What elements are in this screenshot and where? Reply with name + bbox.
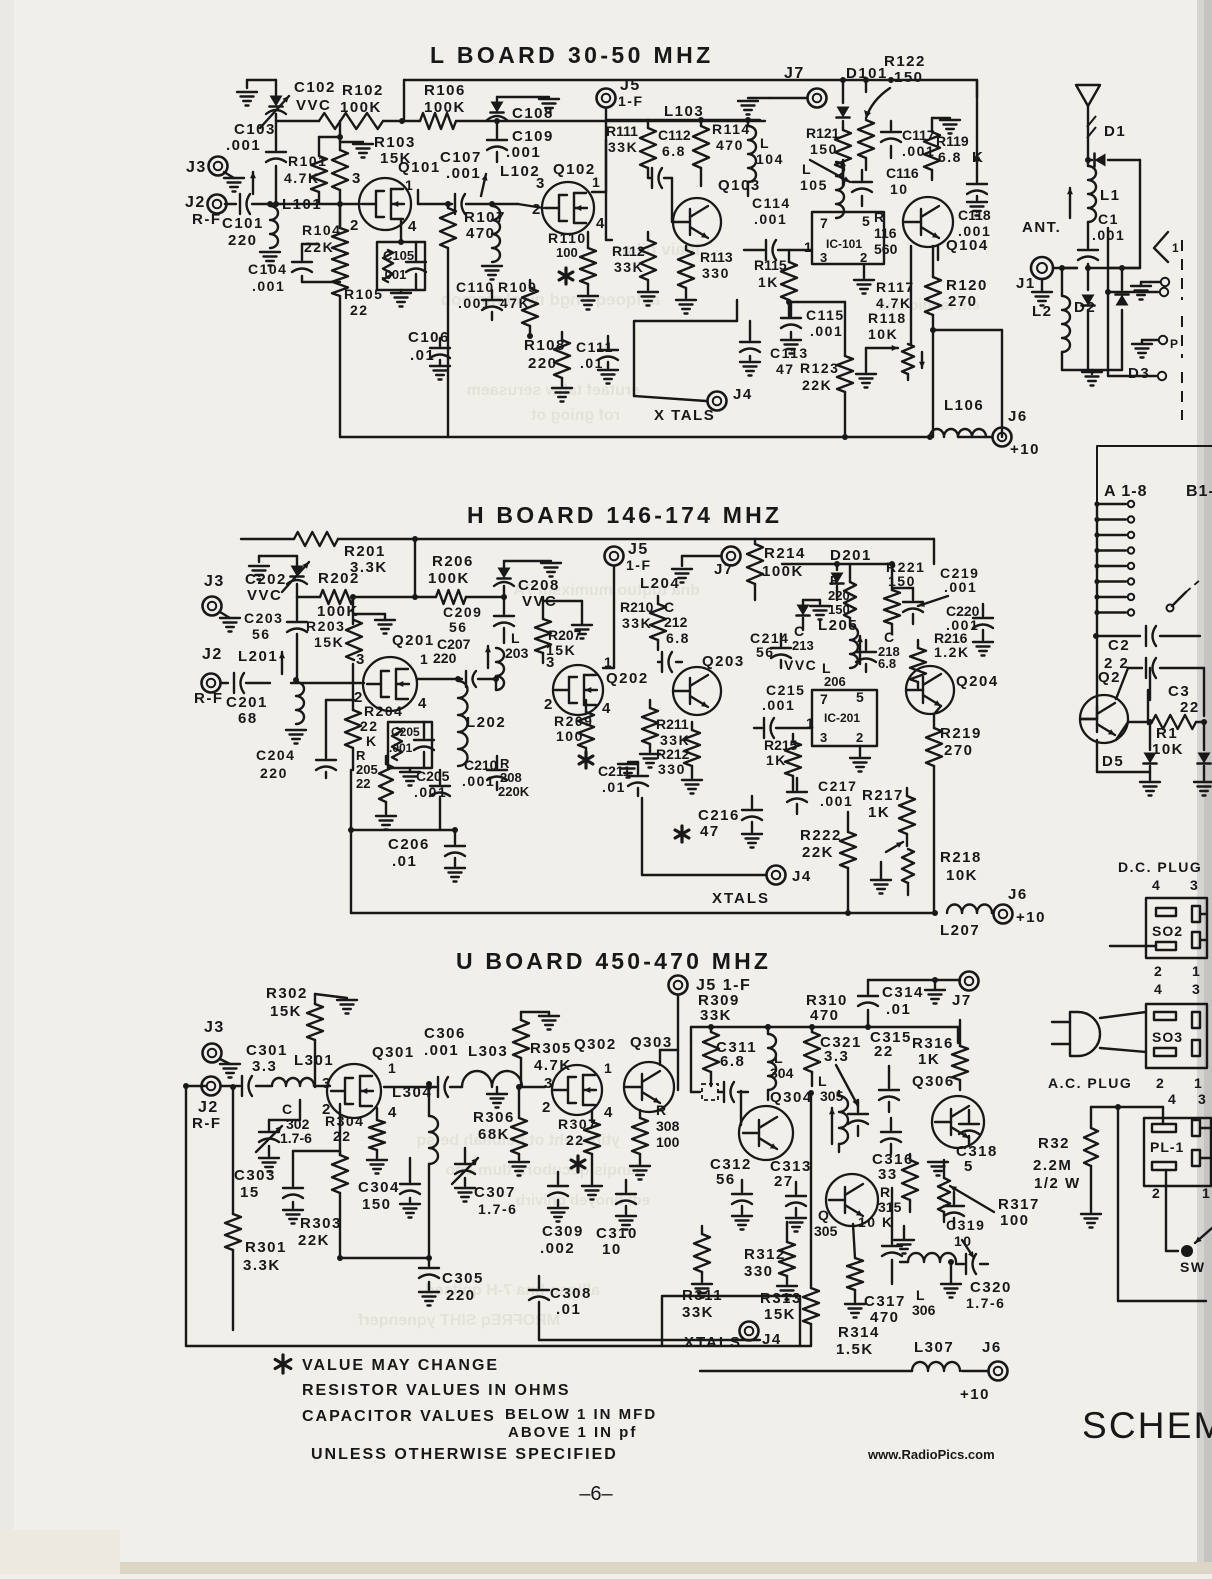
svg-text:B1-: B1-: [1186, 483, 1212, 500]
svg-text:Q303: Q303: [630, 1034, 673, 1051]
resistor R105: [332, 262, 383, 437]
svg-text:1K: 1K: [766, 752, 787, 768]
wire H r202 drop: [412, 539, 418, 600]
svg-text:UNLESS OTHERWISE SPECIFIED: UNLESS OTHERWISE SPECIFIED: [311, 1446, 618, 1463]
wire PL1 left: [1118, 1107, 1206, 1301]
svg-text:470: 470: [810, 1007, 840, 1024]
wire H bus2: [297, 596, 504, 598]
svg-text:C206: C206: [388, 836, 430, 853]
resistor R222: [800, 812, 856, 913]
jack J7 H: [672, 547, 741, 583]
wire L xtal box: [634, 300, 737, 396]
svg-text:R103: R103: [374, 134, 416, 151]
svg-text:IC-201: IC-201: [824, 711, 860, 725]
svg-text:22: 22: [350, 302, 369, 318]
svg-text:C204: C204: [256, 747, 295, 763]
svg-text:22: 22: [333, 1128, 352, 1144]
inductor L304a: [392, 1081, 438, 1258]
capacitor C116: [810, 160, 919, 206]
svg-text:.001: .001: [820, 793, 853, 809]
svg-text:R110: R110: [548, 230, 587, 246]
IC-101 box: [804, 212, 884, 294]
note below: [505, 1406, 657, 1423]
svg-text:213: 213: [792, 638, 814, 653]
inductor L303: [450, 1043, 545, 1108]
svg-text:47: 47: [700, 823, 720, 840]
resistor R107: [440, 204, 506, 437]
svg-text:1: 1: [804, 239, 813, 255]
svg-text:J2: J2: [198, 1099, 219, 1116]
svg-text:1.7-6: 1.7-6: [478, 1201, 517, 1217]
svg-text:R117: R117: [876, 279, 915, 295]
resistor R109: [498, 279, 538, 339]
svg-text:1: 1: [1172, 241, 1180, 255]
right page edge band: [1197, 0, 1212, 1574]
svg-text:C318: C318: [956, 1143, 998, 1160]
svg-text:Q202: Q202: [606, 670, 649, 687]
wire Q201 gate: [291, 682, 364, 684]
capacitor C219: [892, 565, 979, 624]
svg-text:4: 4: [604, 1104, 614, 1121]
resistor R216: [910, 630, 970, 688]
svg-text:Q: Q: [818, 1207, 830, 1223]
svg-text:33K: 33K: [614, 259, 644, 275]
svg-text:10: 10: [602, 1241, 622, 1258]
wire A col top: [1097, 446, 1212, 504]
capacitor C214: [750, 630, 791, 668]
jack J6 L: [958, 408, 1040, 458]
svg-text:C116: C116: [886, 165, 919, 181]
capacitor C109: [487, 121, 554, 162]
svg-text:2: 2: [532, 201, 542, 218]
svg-text:SO3: SO3: [1152, 1029, 1183, 1045]
svg-text:C113: C113: [770, 345, 809, 361]
svg-text:C307: C307: [474, 1184, 516, 1201]
svg-text:C: C: [282, 1101, 294, 1117]
capacitor C105: [377, 242, 426, 307]
resistor R106: [399, 82, 466, 129]
note unless: [311, 1446, 618, 1463]
L board title: [430, 42, 714, 68]
svg-text:PL-1: PL-1: [1150, 1139, 1184, 1155]
svg-text:3: 3: [356, 651, 366, 668]
ground H mid: [354, 614, 395, 634]
svg-text:J7: J7: [714, 561, 734, 578]
svg-text:L102: L102: [500, 163, 540, 180]
resistor R312: [744, 1222, 797, 1300]
svg-text:3: 3: [1198, 1091, 1207, 1107]
note above: [508, 1424, 637, 1441]
wire top border L: [404, 80, 977, 97]
resistor R115: [754, 250, 845, 316]
svg-text:R218: R218: [940, 849, 982, 866]
svg-text:C110: C110: [456, 279, 495, 295]
ground C202: [249, 556, 297, 580]
SO3 slot2: [1154, 1048, 1176, 1056]
svg-text:3: 3: [544, 1075, 554, 1092]
svg-text:2.2M: 2.2M: [1033, 1157, 1072, 1174]
svg-text:R: R: [500, 756, 510, 771]
wire R101 top: [319, 121, 340, 137]
inductor L102: [481, 163, 540, 280]
svg-text:R120: R120: [946, 277, 988, 294]
svg-text:L: L: [760, 135, 770, 151]
wire Q2 base: [1081, 636, 1097, 719]
svg-text:.01: .01: [410, 347, 435, 364]
svg-text:R123: R123: [800, 360, 839, 376]
svg-text:L: L: [818, 1073, 828, 1089]
capacitor C304: [358, 1158, 420, 1218]
wire H q204 em: [934, 706, 941, 913]
right edge arrow1: [1154, 232, 1180, 262]
resistor R119: [924, 118, 969, 180]
svg-text:1-F: 1-F: [618, 93, 644, 109]
resistor R215: [764, 734, 801, 790]
jack J2 L: [185, 194, 227, 228]
SO3 slot3: [1192, 1012, 1200, 1028]
svg-text:Q301: Q301: [372, 1044, 415, 1061]
transistor Q303: [624, 1034, 678, 1112]
inductor L105: [800, 160, 846, 218]
svg-text:L207: L207: [940, 922, 980, 939]
svg-text:XTALS: XTALS: [684, 1334, 742, 1351]
svg-text:C109: C109: [512, 128, 554, 145]
label DC PLUG: [1118, 859, 1202, 875]
transistor Q201: [354, 632, 435, 712]
transistor Q204: [906, 666, 999, 714]
svg-text:4: 4: [1168, 1091, 1177, 1107]
resistor R104: [302, 204, 348, 262]
right edge contact g1: [1131, 278, 1169, 300]
svg-text:C201: C201: [226, 694, 268, 711]
svg-text:1: 1: [604, 1060, 613, 1076]
capacitor C314: [858, 980, 924, 1027]
svg-text:.001: .001: [226, 137, 261, 154]
svg-text:Q103: Q103: [718, 177, 761, 194]
svg-text:56: 56: [716, 1171, 736, 1188]
svg-text:D.C. PLUG: D.C. PLUG: [1118, 859, 1202, 875]
svg-text:308: 308: [656, 1118, 680, 1134]
svg-text:.01: .01: [392, 853, 417, 870]
inductor L305: [818, 1073, 848, 1152]
capacitor C111: [576, 336, 618, 384]
svg-text:203: 203: [505, 645, 529, 661]
capacitor C103: [226, 121, 286, 207]
svg-text:10K: 10K: [868, 326, 898, 342]
svg-text:J3: J3: [204, 573, 225, 590]
capacitor C212: [658, 599, 690, 672]
svg-text:.01: .01: [556, 1301, 581, 1318]
resistor R315: [858, 1154, 918, 1254]
jack J3 L: [186, 157, 244, 192]
svg-text:C115: C115: [806, 307, 845, 323]
wire U left border: [183, 1083, 811, 1346]
capacitor C101: [222, 194, 270, 249]
svg-text:4: 4: [596, 215, 606, 232]
inductor L206: [822, 660, 846, 689]
svg-text:100K: 100K: [428, 570, 470, 587]
svg-text:6.8: 6.8: [878, 656, 896, 671]
svg-text:330: 330: [658, 761, 686, 777]
svg-text:XTALS: XTALS: [712, 890, 770, 907]
transistor Q2: [1080, 669, 1128, 743]
svg-text:R-F: R-F: [192, 1115, 222, 1132]
svg-text:L: L: [511, 630, 521, 646]
resistor R116 560: [874, 209, 898, 257]
note capacitor values: [302, 1408, 496, 1425]
svg-text:7: 7: [820, 215, 829, 231]
wire L q104 em: [937, 246, 939, 260]
svg-text:R303: R303: [300, 1215, 342, 1232]
capacitor C110: [456, 279, 502, 320]
svg-text:1-F: 1-F: [626, 557, 652, 573]
svg-text:R-F: R-F: [192, 211, 222, 228]
resistor R208: [498, 756, 530, 799]
svg-text:C304: C304: [358, 1179, 400, 1196]
svg-text:L303: L303: [468, 1043, 508, 1060]
SO3 box: [1146, 1004, 1207, 1068]
capacitor C317: [864, 1188, 906, 1326]
capacitor C316: [872, 1118, 914, 1183]
right edge dash line: [1181, 240, 1183, 420]
capacitor C305: [419, 1258, 484, 1306]
svg-text:.001: .001: [424, 1042, 459, 1059]
svg-text:22: 22: [874, 1043, 894, 1060]
IC-201 box: [806, 689, 877, 772]
svg-text:VVC: VVC: [784, 657, 817, 673]
SO3 label: [1152, 1029, 1183, 1045]
svg-text:22K: 22K: [802, 377, 832, 393]
resistor R219: [926, 714, 982, 800]
resistor R209: [554, 700, 594, 768]
capacitor C303: [234, 1151, 340, 1224]
svg-text:330: 330: [744, 1263, 774, 1280]
H board title: [467, 502, 782, 528]
resistor R313: [760, 1090, 819, 1346]
wire H bottom border: [351, 910, 938, 916]
svg-text:1: 1: [1202, 1185, 1211, 1201]
svg-text:100: 100: [556, 245, 578, 260]
svg-text:4: 4: [418, 695, 428, 712]
right edge contact b: [1108, 372, 1166, 380]
PL1 pins 4 3: [1168, 1091, 1207, 1107]
svg-text:C2: C2: [1108, 637, 1130, 654]
svg-text:4.7K: 4.7K: [876, 295, 912, 311]
svg-text:–6–: –6–: [579, 1483, 613, 1505]
wire U mid bus: [337, 1255, 432, 1261]
transistor Q306: [912, 1073, 984, 1148]
svg-text:22: 22: [1180, 699, 1200, 716]
svg-text:3: 3: [820, 730, 829, 745]
capacitor C312: [710, 1156, 752, 1230]
resistor R203: [306, 594, 362, 682]
svg-text:J7: J7: [784, 65, 805, 82]
resistor R204: [345, 682, 403, 770]
svg-text:C203: C203: [244, 610, 283, 626]
svg-text:3: 3: [352, 170, 362, 187]
svg-text:.001: .001: [252, 278, 285, 294]
svg-text:R32: R32: [1038, 1135, 1070, 1152]
capacitor C313: [770, 1158, 812, 1232]
svg-text:SCHEM: SCHEM: [1082, 1405, 1212, 1446]
node K: [972, 149, 984, 166]
wire Q101-4: [398, 219, 404, 245]
svg-text:C107: C107: [440, 149, 482, 166]
capacitor C218: [856, 629, 900, 672]
svg-text:R313: R313: [760, 1290, 802, 1307]
SO3 pins 4 3: [1154, 981, 1201, 997]
AC wires: [1100, 1012, 1146, 1052]
svg-text:3: 3: [1190, 877, 1199, 893]
svg-text:L: L: [802, 161, 812, 177]
capacitor C106: [408, 329, 450, 380]
U board title: [456, 948, 771, 974]
svg-text:R214: R214: [764, 545, 806, 562]
svg-text:100: 100: [556, 728, 584, 744]
wire H xtal box: [642, 798, 766, 875]
inductor L101: [250, 172, 322, 266]
svg-text:C114: C114: [752, 195, 791, 211]
svg-text:C319: C319: [946, 1217, 985, 1233]
svg-text:C217: C217: [818, 778, 857, 794]
svg-text:BELOW 1 IN MFD: BELOW 1 IN MFD: [505, 1406, 657, 1423]
resistor R201: [294, 532, 418, 576]
svg-text:C320: C320: [970, 1279, 1012, 1296]
resistor R1: [1116, 715, 1207, 758]
wire R102 bus: [276, 120, 765, 122]
diode D2: [1074, 265, 1096, 370]
diode D5: [1097, 722, 1160, 796]
svg-text:10K: 10K: [1152, 741, 1184, 758]
svg-text:A.C. PLUG: A.C. PLUG: [1048, 1075, 1132, 1091]
resistor R316: [912, 1020, 968, 1090]
capacitor C318: [956, 1110, 998, 1175]
transistor Q203: [673, 653, 745, 715]
svg-text:306: 306: [912, 1302, 936, 1318]
svg-text:220K: 220K: [498, 784, 530, 799]
svg-text:.001: .001: [944, 579, 977, 595]
switch SW: [1180, 1228, 1212, 1275]
capacitor C321: [820, 1034, 868, 1136]
svg-text:Q302: Q302: [574, 1036, 617, 1053]
svg-text:100K: 100K: [762, 563, 804, 580]
svg-text:R122: R122: [884, 53, 926, 70]
svg-text:1: 1: [388, 1060, 397, 1076]
resistor R220: [828, 564, 856, 626]
svg-text:R203: R203: [306, 618, 345, 634]
jack J5 L: [597, 77, 644, 140]
svg-text:rof gniog ot: rof gniog ot: [530, 407, 620, 424]
SO3 pins 2 1: [1156, 1075, 1203, 1091]
jack J2 U: [192, 1077, 232, 1133]
svg-text:5: 5: [862, 213, 871, 229]
jack J5 U: [669, 976, 752, 1091]
svg-text:2: 2: [860, 250, 869, 265]
svg-text:100: 100: [1000, 1212, 1030, 1229]
resistor R108: [524, 332, 572, 402]
svg-text:C308: C308: [550, 1285, 592, 1302]
svg-text:C314: C314: [882, 984, 924, 1001]
note value may change: [302, 1357, 499, 1374]
resistor R309: [698, 992, 740, 1086]
wire C3 drop: [1147, 690, 1149, 724]
svg-text:Q201: Q201: [392, 632, 435, 649]
svg-text:R-F: R-F: [194, 690, 224, 707]
svg-text:Q203: Q203: [702, 653, 745, 670]
svg-text:1.5K: 1.5K: [836, 1341, 874, 1358]
ground D2 D3: [1062, 370, 1122, 386]
svg-text:MROFREq SIHT yqnenqerf: MROFREq SIHT yqnenqerf: [358, 1312, 560, 1329]
svg-text:33K: 33K: [682, 1304, 714, 1321]
svg-text:2: 2: [542, 1099, 552, 1116]
svg-text:2: 2: [1152, 1185, 1161, 1201]
svg-text:J2: J2: [202, 646, 223, 663]
svg-text:315: 315: [878, 1199, 902, 1215]
svg-text:C102: C102: [294, 79, 336, 96]
svg-text:R222: R222: [800, 827, 842, 844]
inductor L307: [700, 1339, 960, 1371]
svg-text:L BOARD 30-50 MHZ: L BOARD 30-50 MHZ: [430, 42, 714, 68]
capacitor C102 VVC: [260, 79, 336, 128]
svg-text:1: 1: [1194, 1075, 1203, 1091]
inductor L106: [927, 397, 986, 440]
svg-text:2: 2: [544, 696, 554, 713]
capacitor C320: [956, 1240, 1012, 1311]
jack J2 H: [194, 646, 224, 707]
svg-text:www.RadioPics.com: www.RadioPics.com: [867, 1447, 995, 1462]
svg-text:27: 27: [774, 1173, 794, 1190]
svg-text:270: 270: [948, 293, 978, 310]
svg-text:D3: D3: [1128, 365, 1150, 382]
capacitor C301: [232, 1042, 288, 1096]
transistor Q301: [322, 1044, 415, 1121]
svg-text:220: 220: [528, 355, 558, 372]
svg-text:1: 1: [592, 174, 601, 190]
svg-text:1K: 1K: [758, 274, 779, 290]
svg-text:R209: R209: [554, 713, 593, 729]
page number: [579, 1483, 613, 1505]
svg-text:+10: +10: [960, 1386, 990, 1403]
svg-text:150: 150: [362, 1196, 392, 1213]
jack J6 H: [992, 886, 1046, 926]
svg-text:68: 68: [238, 710, 258, 727]
svg-text:J4: J4: [762, 1331, 782, 1348]
svg-text:56: 56: [449, 619, 468, 635]
svg-text:4: 4: [388, 1104, 398, 1121]
svg-text:220: 220: [433, 650, 457, 666]
svg-text:A 1-8: A 1-8: [1104, 483, 1148, 500]
capacitor C315: [870, 1029, 912, 1112]
svg-text:3: 3: [820, 250, 829, 265]
contact ladder A: [1094, 501, 1134, 636]
svg-text:305: 305: [814, 1223, 838, 1239]
svg-text:C1: C1: [1098, 211, 1119, 227]
svg-text:L202: L202: [466, 714, 506, 731]
svg-text:C3: C3: [1168, 683, 1190, 700]
svg-text:R305: R305: [530, 1040, 572, 1057]
svg-text:C112: C112: [658, 127, 691, 143]
svg-text:R113: R113: [700, 249, 733, 265]
svg-text:R306: R306: [473, 1109, 515, 1126]
wire L right border: [976, 80, 978, 160]
inductor L204 coil: [0, 0, 1, 1]
resistor R301: [225, 1084, 287, 1330]
svg-text:J5: J5: [620, 77, 641, 94]
capacitor C204: [256, 700, 354, 781]
resistor R217: [862, 787, 915, 894]
PL1 box: [1144, 1118, 1211, 1186]
svg-text:R301: R301: [245, 1239, 287, 1256]
